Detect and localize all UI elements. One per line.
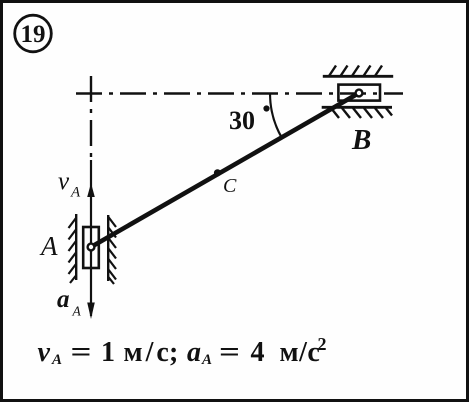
left wall hatching [69, 218, 77, 283]
problem number badge 19 [15, 15, 52, 52]
svg-text:a: a [187, 337, 201, 368]
svg-text:=: = [71, 337, 92, 368]
svg-text:v: v [38, 337, 51, 368]
label 30 degrees [229, 106, 269, 135]
svg-text:B: B [351, 124, 371, 156]
svg-text:4: 4 [251, 337, 265, 368]
svg-text:A: A [51, 352, 62, 368]
lower wall line at B [322, 106, 392, 109]
svg-text:м/с: м/с [124, 337, 172, 368]
right wall line at A [107, 215, 109, 281]
vertical guide line through A [90, 160, 92, 316]
svg-text:A: A [72, 304, 82, 319]
svg-text:a: a [57, 286, 70, 313]
midpoint C dot [214, 169, 221, 176]
upper wall hatching [329, 66, 382, 77]
pin joint A [88, 244, 95, 251]
left wall line at A [75, 214, 77, 280]
right wall hatching [108, 217, 116, 284]
angle arc 30deg [270, 94, 282, 138]
svg-text:A: A [70, 185, 81, 201]
svg-text:A: A [39, 231, 58, 261]
svg-text:v: v [58, 168, 70, 195]
svg-text:C: C [223, 175, 237, 197]
svg-text:м/с: м/с [280, 337, 321, 368]
svg-text:30: 30 [229, 106, 255, 135]
vertical dash-dot axis [90, 76, 92, 157]
rod AB [91, 93, 359, 247]
svg-text:;: ; [169, 337, 178, 368]
velocity arrowhead vA (up) [87, 183, 95, 197]
acceleration arrowhead aA (down) [87, 303, 95, 320]
label vA [58, 168, 81, 201]
horizontal dash-dot axis [76, 92, 403, 94]
pin joint B [356, 90, 363, 97]
svg-text:2: 2 [318, 334, 327, 354]
lower wall hatching [331, 108, 392, 118]
slider block B [338, 85, 380, 101]
svg-text:1: 1 [101, 337, 115, 368]
label aA [57, 286, 82, 319]
svg-text:19: 19 [21, 21, 46, 48]
svg-text:A: A [201, 352, 212, 368]
slider block A [83, 227, 99, 268]
upper wall line at B [323, 75, 393, 78]
formula line [38, 334, 327, 368]
svg-text:=: = [219, 337, 240, 368]
